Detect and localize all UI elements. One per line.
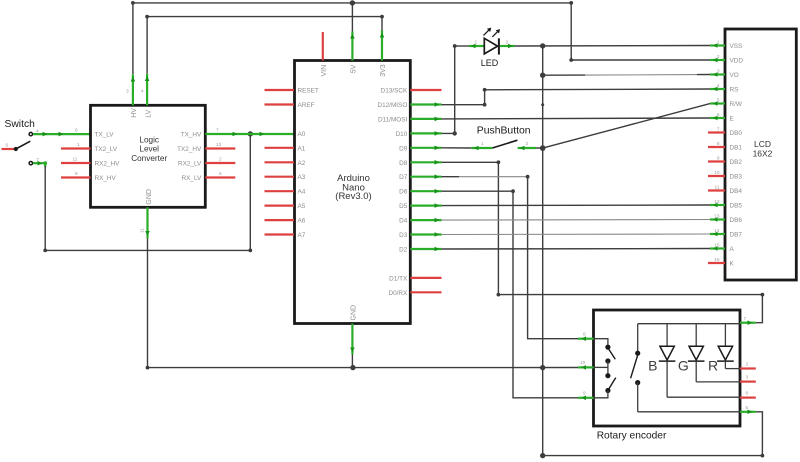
pushbutton S2: [442, 126, 543, 151]
svg-text:A6: A6: [298, 218, 306, 225]
U2 pin D6 green stub: [410, 190, 441, 192]
wire 3V3 rail to LV: [147, 17, 382, 74]
svg-text:LED: LED: [481, 58, 499, 68]
U3 pin DB5 green stub: [710, 204, 725, 206]
bend point top rail left: [131, 1, 135, 5]
switch S1 top contact: [29, 132, 32, 135]
wire TX_HV to A0: [205, 133, 294, 135]
U1 pin RX2_HV red stub: [61, 162, 91, 164]
switch S1 lever: [16, 141, 30, 149]
wire diagonal junction to LCD R/W: [543, 104, 710, 149]
svg-text:RESET: RESET: [298, 88, 319, 95]
U2 pin D9 green stub: [410, 147, 441, 149]
svg-text:TX2_HV: TX2_HV: [177, 146, 202, 153]
bend point top rail right: [569, 1, 573, 5]
switch S1: [2, 119, 40, 165]
svg-text:TX_HV: TX_HV: [181, 132, 202, 139]
svg-text:(Rev3.0): (Rev3.0): [335, 191, 371, 202]
bend point: [511, 189, 515, 193]
U1 pin HV green stub: [132, 74, 134, 105]
svg-text:GND: GND: [146, 189, 153, 205]
LED triangle: [484, 38, 497, 54]
bend point VDD corner: [569, 58, 573, 62]
rotary encoder U4: [594, 310, 741, 442]
switch S1 bottom contact: [29, 162, 32, 165]
svg-text:16X2: 16X2: [753, 149, 773, 159]
LED cathode bar: [498, 38, 500, 54]
U4 internal LED G: [678, 324, 740, 382]
U3 pin DB3 red stub: [708, 175, 725, 177]
svg-text:8: 8: [717, 141, 720, 147]
svg-text:D2: D2: [399, 247, 408, 254]
svg-text:RX_HV: RX_HV: [95, 175, 117, 182]
U3 pin RS green stub: [710, 88, 725, 90]
svg-text:DB3: DB3: [730, 174, 743, 181]
svg-text:RX2_LV: RX2_LV: [178, 161, 202, 168]
svg-text:2: 2: [717, 54, 720, 60]
svg-text:Switch: Switch: [5, 119, 36, 130]
LED cathode green stub: [500, 45, 515, 47]
junction bottom rail: [540, 453, 545, 458]
arrow at TX_LV stub: [59, 132, 64, 137]
svg-text:2: 2: [506, 40, 509, 46]
svg-text:A7: A7: [298, 232, 306, 239]
svg-text:A1: A1: [298, 145, 306, 152]
wire D7 to rotary pin 8: [442, 176, 460, 178]
svg-text:3: 3: [717, 69, 720, 75]
wire 5V top rail to HV and VDD: [133, 3, 710, 74]
U2 pin AREF red stub: [265, 103, 295, 105]
U2 pin A1 red stub: [265, 147, 295, 149]
ground rail: [148, 367, 579, 369]
U2 pin D11 green stub: [410, 118, 441, 120]
bend point: [526, 175, 530, 179]
bend point LED riser top: [453, 44, 457, 48]
svg-text:DB5: DB5: [730, 203, 743, 210]
svg-text:D3: D3: [399, 232, 408, 239]
wire E (D11 to LCD E): [442, 117, 711, 120]
wire RS (D12 to LCD RS): [485, 88, 710, 91]
wire D8 to rotary pin 7: [442, 162, 763, 322]
U3 pin DB4 red stub: [708, 189, 725, 191]
svg-text:K: K: [730, 261, 735, 268]
junction arduino GND on rail: [350, 365, 355, 370]
U2 pin D5 green stub: [410, 205, 441, 207]
U4 internal LED B: [648, 324, 740, 398]
svg-text:2: 2: [219, 157, 222, 163]
svg-text:RS: RS: [730, 87, 739, 94]
U2 pin D12 green stub: [410, 103, 441, 105]
svg-text:3V3: 3V3: [380, 64, 387, 77]
svg-text:B: B: [648, 357, 657, 373]
ground net vertical: [542, 46, 544, 456]
svg-text:5V: 5V: [350, 64, 357, 73]
U4 pin 6 red stub: [740, 397, 756, 399]
wire LED cathode to LCD VSS: [515, 45, 711, 48]
svg-text:3: 3: [126, 89, 129, 95]
wire D7 vertical to rotary pin 8: [528, 177, 578, 339]
svg-text:9: 9: [717, 156, 720, 162]
svg-text:16: 16: [714, 257, 720, 263]
wire 5V pin riser: [351, 3, 353, 32]
bend point switch loop top: [43, 161, 47, 165]
arrow HV: [131, 77, 136, 82]
wire VO segment 1: [543, 74, 585, 76]
bend point on ground vertical: [541, 103, 544, 106]
svg-text:5: 5: [717, 98, 720, 104]
pushbutton lever: [492, 140, 517, 148]
svg-text:1: 1: [481, 141, 484, 147]
svg-text:D7: D7: [399, 174, 408, 181]
svg-text:LCD: LCD: [754, 139, 771, 149]
svg-text:RX_LV: RX_LV: [182, 175, 203, 182]
wire D12 to RS riser: [442, 90, 485, 105]
svg-text:D11/MOSI: D11/MOSI: [378, 116, 408, 123]
U2 pin A3 red stub: [265, 176, 295, 178]
U2 pin RESET red stub: [265, 89, 295, 91]
LED D1: [455, 28, 515, 68]
U2 pin D3 green stub: [410, 233, 441, 235]
wire D4 to LCD DB6 (ratsnest gray): [442, 219, 711, 222]
wire D2 to LCD A: [442, 248, 711, 251]
wire D3 to LCD DB7 (ratsnest gray): [442, 233, 711, 236]
U3 pin VSS green stub: [710, 44, 725, 46]
U4 pin 5 green stub: [740, 411, 756, 413]
U4 pin 3 red stub: [740, 381, 756, 383]
pushbutton pin 2 green stub: [518, 147, 536, 149]
arrow on A0 wire at arduino: [260, 132, 265, 137]
svg-text:HV: HV: [131, 108, 138, 118]
svg-text:D1/TX: D1/TX: [389, 275, 408, 282]
svg-text:1: 1: [717, 40, 720, 46]
bend point 3V3 rail right: [380, 15, 384, 19]
bend point: [248, 249, 252, 253]
logic level converter U1: [91, 105, 206, 207]
U2 pin A5 red stub: [265, 205, 295, 207]
svg-text:6: 6: [75, 128, 78, 134]
pushbutton pin 1 green stub: [472, 147, 493, 149]
svg-text:A: A: [730, 246, 735, 253]
svg-text:D10: D10: [396, 131, 408, 138]
U3 pin R/W green stub: [710, 102, 725, 104]
svg-text:TX2_LV: TX2_LV: [95, 146, 118, 153]
wire switch top contact to TX_LV: [33, 133, 91, 135]
svg-text:5: 5: [746, 405, 749, 411]
svg-text:9: 9: [583, 391, 586, 397]
U3 pin VO green stub: [710, 73, 725, 75]
node A0 junction: [248, 131, 253, 136]
svg-text:Rotary encoder: Rotary encoder: [597, 431, 667, 442]
svg-text:11: 11: [715, 185, 720, 191]
svg-text:VSS: VSS: [730, 43, 743, 50]
svg-text:10: 10: [580, 360, 586, 366]
junction pushbutton/RW/ground: [540, 145, 546, 151]
junction ground net on rail: [540, 365, 545, 370]
junction 5V on top rail: [350, 0, 355, 5]
svg-text:LV: LV: [145, 109, 152, 117]
svg-text:15: 15: [714, 243, 720, 249]
U2 pin 5V green stub: [351, 32, 353, 61]
wire switch bottom contact green: [33, 163, 45, 167]
wire D6 to rotary pin 9: [442, 191, 579, 398]
svg-text:D8: D8: [399, 160, 408, 167]
U1 pin RX_HV red stub: [61, 176, 91, 178]
svg-text:DB1: DB1: [730, 145, 743, 152]
U4 pin 7 green stub: [740, 322, 756, 324]
bend point: [43, 249, 47, 253]
svg-text:12: 12: [714, 199, 720, 205]
U3 pin DB7 green stub: [710, 233, 725, 235]
wire VO segment 2 (ratsnest gray): [585, 74, 697, 77]
arrow on switch wire: [43, 132, 48, 137]
svg-text:A3: A3: [298, 174, 306, 181]
U2 pin D8 green stub: [410, 161, 441, 163]
svg-text:D5: D5: [399, 203, 408, 210]
svg-text:12: 12: [216, 142, 222, 148]
U1 pin TX2_LV red stub: [61, 147, 91, 149]
svg-text:R/W: R/W: [730, 101, 743, 108]
bend point: [761, 454, 765, 458]
bend point: [497, 293, 501, 297]
svg-text:VO: VO: [730, 72, 739, 79]
U2 pin D0/RX red stub: [410, 291, 441, 293]
LED anode green stub: [469, 45, 484, 47]
U2 pin D10 green stub: [410, 132, 441, 134]
switch S1 common contact: [14, 147, 18, 151]
bend point pin7 riser: [761, 293, 765, 297]
svg-text:3: 3: [746, 375, 749, 381]
arrow 5V: [350, 34, 355, 39]
svg-text:PushButton: PushButton: [477, 126, 531, 137]
svg-text:6: 6: [746, 391, 749, 397]
arrow U1 GND: [145, 231, 150, 236]
U2 pin D1/TX red stub: [410, 277, 441, 279]
svg-text:G: G: [678, 357, 689, 373]
wire switch bottom to A0 loop: [45, 134, 250, 251]
arrow LV: [145, 76, 150, 81]
LED arrow 1: [484, 29, 490, 35]
svg-text:7: 7: [744, 316, 747, 322]
svg-text:TX_LV: TX_LV: [95, 132, 115, 139]
U4 internal rotary contacts: [594, 339, 616, 398]
svg-text:4: 4: [717, 83, 720, 89]
U2 pin A2 red stub: [265, 161, 295, 163]
svg-text:D0/RX: D0/RX: [388, 290, 408, 297]
svg-text:Converter: Converter: [131, 154, 167, 163]
svg-text:DB2: DB2: [730, 159, 743, 166]
LED anode wire: [455, 45, 469, 47]
svg-text:A4: A4: [298, 189, 306, 196]
svg-text:A2: A2: [298, 160, 306, 167]
U4 pin 2 red stub: [740, 367, 756, 369]
U1 pin RX_LV red stub: [205, 176, 235, 178]
svg-text:A5: A5: [298, 203, 306, 210]
arrow on switch bottom wire: [38, 161, 43, 166]
U4 internal LED R: [708, 324, 740, 374]
wire D5 to LCD DB5: [442, 204, 711, 207]
svg-text:D12/MISO: D12/MISO: [377, 102, 407, 109]
bend point 3V3 rail left: [145, 15, 149, 19]
U1 pin TX2_HV red stub: [205, 147, 235, 149]
arrow 3V3: [380, 33, 385, 38]
arrow on A0 wire: [233, 132, 238, 137]
switch S1 common red stub: [2, 148, 15, 150]
pushbutton pin 1 wire from D9: [442, 147, 472, 149]
bend point: [483, 103, 487, 107]
U3 pin A green stub: [710, 247, 725, 249]
svg-text:D13/SCK: D13/SCK: [381, 88, 408, 95]
svg-text:8: 8: [583, 332, 586, 338]
U2 pin A6 red stub: [265, 219, 295, 221]
svg-text:7: 7: [216, 128, 219, 134]
U4 internal top rail: [638, 323, 740, 325]
junction LED/VSS: [540, 43, 545, 48]
U2 pin GND green stub: [351, 324, 353, 355]
U4 pin 10 green stub: [578, 366, 594, 368]
arduino nano U2: [295, 61, 411, 324]
svg-text:11: 11: [73, 157, 78, 163]
svg-text:GND: GND: [350, 305, 357, 321]
U2 pin A4 red stub: [265, 190, 295, 192]
arrow U2 GND: [350, 348, 355, 353]
U3 pin DB6 green stub: [710, 218, 725, 220]
svg-text:DB7: DB7: [730, 232, 743, 239]
wire D10 to LED riser: [442, 46, 455, 133]
U1 pin GND green stub: [146, 207, 148, 238]
bottom rail to rotary pin 5: [543, 412, 763, 456]
junction VO tap: [540, 73, 545, 78]
U3 pin E green stub: [710, 117, 725, 119]
svg-text:VIN: VIN: [321, 65, 328, 77]
svg-text:10: 10: [714, 170, 720, 176]
U3 pin DB2 red stub: [708, 160, 725, 162]
svg-text:5: 5: [219, 171, 222, 177]
svg-text:D4: D4: [399, 218, 408, 225]
svg-text:RX2_HV: RX2_HV: [95, 161, 121, 168]
svg-text:6: 6: [717, 112, 720, 118]
svg-text:R: R: [708, 357, 718, 373]
wire U1 GND down to ground rail: [147, 238, 149, 367]
svg-text:Level: Level: [139, 145, 159, 154]
U2 pin D2 green stub: [410, 248, 441, 250]
wire VO segment 3: [697, 74, 710, 76]
svg-text:4: 4: [141, 89, 144, 95]
U2 pin 3V3 green stub: [381, 31, 383, 61]
U3 pin DB0 red stub: [708, 131, 725, 133]
svg-text:D9: D9: [399, 145, 408, 152]
wire U2 GND to rail: [351, 355, 353, 368]
svg-text:DB4: DB4: [730, 188, 743, 195]
LCD 16X2 U3: [725, 29, 796, 280]
U1 pin RX2_LV red stub: [205, 162, 235, 164]
bend point ground rail left: [146, 366, 150, 370]
U3 pin K red stub: [708, 262, 725, 264]
pushbutton pin 2 wire to junction: [536, 147, 543, 149]
U2 pin D13/SCK red stub: [410, 89, 441, 91]
svg-text:E: E: [730, 116, 734, 123]
U3 pin VDD green stub: [710, 59, 725, 61]
U4 internal push switch: [631, 324, 740, 412]
U1 pin LV green stub: [146, 74, 148, 106]
U4 pin 8 green stub: [578, 338, 594, 340]
U2 pin D4 green stub: [410, 219, 441, 221]
svg-text:11: 11: [140, 228, 146, 233]
svg-text:Logic: Logic: [139, 135, 159, 144]
svg-text:AREF: AREF: [298, 102, 315, 109]
svg-text:D6: D6: [399, 189, 408, 196]
svg-text:2: 2: [746, 362, 749, 368]
U4 pin 9 green stub: [578, 397, 594, 399]
svg-text:14: 14: [714, 228, 720, 234]
bend point D10: [453, 131, 457, 135]
U2 pin VIN red stub: [322, 32, 324, 61]
svg-text:8: 8: [75, 171, 78, 177]
U3 pin DB1 red stub: [708, 146, 725, 148]
LED arrow 2: [492, 31, 498, 37]
svg-text:7: 7: [717, 127, 720, 133]
bend point: [483, 88, 487, 92]
svg-text:6: 6: [6, 143, 9, 149]
bend point: [497, 160, 501, 164]
svg-text:1: 1: [77, 142, 80, 148]
svg-text:DB6: DB6: [730, 217, 743, 224]
svg-text:2: 2: [526, 141, 529, 147]
svg-text:VDD: VDD: [730, 58, 744, 65]
wire D7 gray segment: [459, 176, 528, 178]
U2 pin A7 red stub: [265, 233, 295, 235]
svg-text:A0: A0: [298, 131, 306, 138]
svg-text:DB0: DB0: [730, 130, 743, 137]
U2 pin D7 green stub: [410, 176, 441, 178]
svg-text:13: 13: [714, 214, 720, 220]
svg-text:1: 1: [475, 40, 478, 46]
